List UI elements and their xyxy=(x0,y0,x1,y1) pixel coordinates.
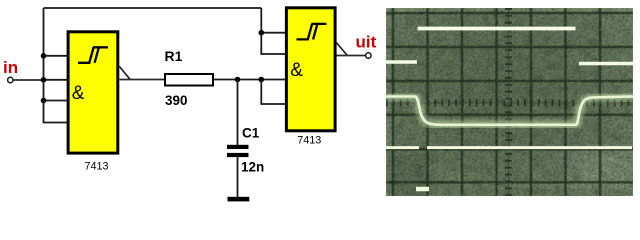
scope center vertical axis ticks xyxy=(505,8,512,196)
scope vignette xyxy=(386,8,633,196)
svg-text:C1: C1 xyxy=(242,126,260,141)
wire U2 input stub 1 xyxy=(261,32,286,34)
wire feedback top xyxy=(44,7,262,9)
scope grain dark speckle xyxy=(386,8,633,196)
oscilloscope photo xyxy=(386,8,633,196)
scope trace square-wave low right glow xyxy=(579,59,633,69)
svg-text:12n: 12n xyxy=(241,160,264,175)
op-amp U2 : schmitt NAND gate 7413 body xyxy=(286,8,335,131)
scope light left band xyxy=(386,8,392,196)
scope trace baseline left xyxy=(386,146,419,149)
junction dot bus2 lower xyxy=(259,77,265,83)
scope center horizontal axis line xyxy=(386,102,633,104)
scope trace RC waveform glow xyxy=(386,96,633,124)
wire U1 out to R1 xyxy=(120,79,166,81)
scope trace baseline left glow xyxy=(386,143,419,153)
scope trigger dash xyxy=(416,187,429,192)
wire capacitor branch upper xyxy=(237,80,239,146)
U1 hysteresis symbol xyxy=(78,47,108,63)
U2 output inverter flag xyxy=(336,43,347,56)
scope trace square-wave high glow xyxy=(418,24,576,34)
svg-text:390: 390 xyxy=(165,93,188,108)
svg-text:uit: uit xyxy=(356,33,377,52)
svg-text:&: & xyxy=(290,60,303,81)
node IN terminal xyxy=(8,77,13,82)
wire U2 out to terminal xyxy=(337,55,366,57)
U2 hysteresis symbol xyxy=(297,24,327,40)
wire U1 input stub 3 xyxy=(44,100,69,102)
scope grain light speckle xyxy=(386,8,633,196)
op-amp U1 : schmitt NAND gate 7413 body xyxy=(68,32,118,153)
junction dot bus1 mid xyxy=(41,77,47,83)
scope grain blotch xyxy=(386,8,633,196)
scope trace RC waveform xyxy=(386,96,633,124)
scope center vertical axis line xyxy=(508,8,510,196)
scope bottom edge dark band xyxy=(386,190,633,196)
capacitor C1 xyxy=(227,145,249,157)
wire capacitor to ground xyxy=(237,157,239,197)
wire in to input bus xyxy=(13,79,43,81)
scope background xyxy=(386,8,633,196)
wire U2 input bus upper xyxy=(261,8,286,54)
svg-text:&: & xyxy=(72,83,85,104)
node UIT terminal xyxy=(366,53,371,58)
scope trace square-wave low left glow xyxy=(386,57,417,67)
wire R1 to U2 input xyxy=(213,79,286,81)
junction dot bus1 top xyxy=(41,53,47,59)
wire U2 input bus lower xyxy=(261,80,286,105)
junction dot bus2 upper xyxy=(259,30,265,36)
scope bottom-right light patch xyxy=(570,148,633,188)
scope graticule vertical lines xyxy=(393,8,600,196)
resistor R1 xyxy=(165,74,213,86)
scope light top band xyxy=(386,8,633,13)
svg-text:7413: 7413 xyxy=(85,161,109,173)
scope graticule horizontal lines xyxy=(386,13,633,182)
scope trace baseline right xyxy=(427,146,632,149)
scope trace square-wave low right xyxy=(579,62,633,65)
scope trace baseline right glow xyxy=(427,143,632,153)
ground xyxy=(228,197,250,202)
svg-text:in: in xyxy=(3,58,18,77)
svg-text:R1: R1 xyxy=(165,48,183,64)
scope trace square-wave low left xyxy=(386,60,417,64)
scope trace square-wave high xyxy=(418,27,576,31)
U1 output inverter flag xyxy=(119,66,130,79)
wire U1 input stub 1 xyxy=(44,55,69,57)
scope bottom-left dark patch xyxy=(386,150,434,196)
junction dot RC node xyxy=(235,77,241,83)
scope center horizontal axis ticks xyxy=(386,99,633,106)
svg-text:7413: 7413 xyxy=(297,135,321,147)
junction dot bus1 low xyxy=(41,98,47,104)
wire U1 input stub 2 xyxy=(44,79,69,81)
wire U1 input bus xyxy=(44,8,69,123)
